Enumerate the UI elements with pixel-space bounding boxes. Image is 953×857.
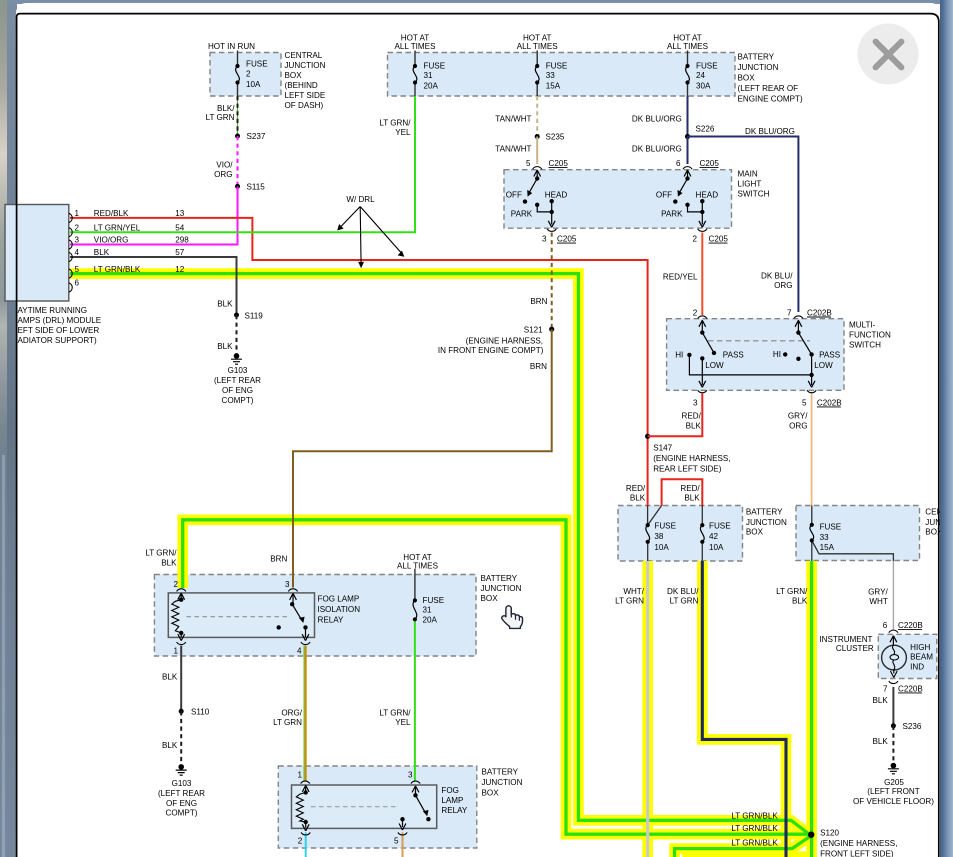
fuse 2 10A xyxy=(235,64,239,85)
label battery junction box (iso) xyxy=(481,574,522,603)
svg-text:LT GRN/BLK: LT GRN/BLK xyxy=(731,838,778,847)
label BLK below S110 xyxy=(162,741,178,750)
svg-text:BATTERY: BATTERY xyxy=(738,53,775,62)
splice S235 xyxy=(535,134,540,139)
connector C202B pin7 arc xyxy=(794,316,803,319)
svg-text:BEAM: BEAM xyxy=(910,653,933,662)
fuse 33 15A (right box) xyxy=(810,523,814,543)
label HOT AT ALL TIMES (fuse24) xyxy=(667,34,709,52)
svg-text:FOG: FOG xyxy=(441,786,459,795)
main light switch section 2 internals xyxy=(673,170,706,227)
svg-text:FUSE: FUSE xyxy=(820,523,842,532)
svg-text:DK BLU/ORG: DK BLU/ORG xyxy=(632,145,682,154)
label fuse2 value xyxy=(246,60,268,90)
svg-text:BOX: BOX xyxy=(746,528,764,537)
svg-text:OF DASH): OF DASH) xyxy=(285,101,324,110)
svg-text:1: 1 xyxy=(297,771,302,780)
wire VIO/ORG solid: S115 to DRL pin3 xyxy=(70,186,238,244)
svg-text:2: 2 xyxy=(75,223,80,232)
label DK BLU/LT GRN xyxy=(667,587,699,606)
isolation relay pin2 arc xyxy=(177,589,186,592)
wire ORG/LT GRN: isolation relay pin4 to fog relay pin1 xyxy=(304,646,306,782)
svg-text:RED/YEL: RED/YEL xyxy=(663,273,698,282)
svg-text:LT GRN/: LT GRN/ xyxy=(379,709,411,718)
battery junction box (fog lamp relay) dashed box xyxy=(278,766,477,848)
svg-text:C205: C205 xyxy=(549,159,569,168)
ground G205 xyxy=(888,763,899,774)
svg-text:LAMP: LAMP xyxy=(441,796,463,805)
svg-text:6: 6 xyxy=(676,159,681,168)
svg-text:ALL TIMES: ALL TIMES xyxy=(517,42,559,51)
svg-text:BLK: BLK xyxy=(162,741,178,750)
svg-text:FUSE: FUSE xyxy=(696,62,718,71)
main light switch section 1 internals xyxy=(523,170,555,227)
svg-text:FUSE: FUSE xyxy=(654,522,676,531)
svg-text:57: 57 xyxy=(175,248,185,257)
mouse cursor (hand pointer) xyxy=(502,606,523,629)
wire CYAN: fog relay pin2 down xyxy=(305,833,307,857)
label VIO/ORG xyxy=(214,161,233,180)
svg-text:WHT: WHT xyxy=(869,597,887,606)
svg-text:LT GRN/: LT GRN/ xyxy=(379,119,411,128)
WHT/LT GRN gray core: fuse38 down xyxy=(646,561,649,857)
svg-text:ORG/: ORG/ xyxy=(281,709,302,718)
svg-text:ORG: ORG xyxy=(774,281,792,290)
label fuse38 value xyxy=(654,522,676,552)
svg-text:LT GRN/: LT GRN/ xyxy=(145,549,177,558)
svg-text:5: 5 xyxy=(802,398,807,407)
svg-text:24: 24 xyxy=(696,71,706,80)
labels LT GRN/BLK x3 at S120 xyxy=(731,812,778,848)
svg-text:ALL TIMES: ALL TIMES xyxy=(397,562,439,571)
label W/ DRL xyxy=(346,195,375,204)
fog relay pin3 arc xyxy=(411,781,420,784)
svg-text:TAN/WHT: TAN/WHT xyxy=(495,115,531,124)
svg-text:FUSE: FUSE xyxy=(424,62,446,71)
svg-text:(LEFT REAR OF: (LEFT REAR OF xyxy=(738,84,799,93)
wire: fuse33top feed stub and in-box leads xyxy=(536,51,538,97)
battery junction box (fuse 38/42) dashed box xyxy=(618,506,743,562)
fuse 31 20A (isolation box) xyxy=(413,598,417,621)
svg-text:BATTERY: BATTERY xyxy=(746,508,783,517)
label BRN upper xyxy=(530,297,547,306)
label battery junction box (38/42) xyxy=(746,508,787,537)
svg-text:BLK: BLK xyxy=(872,696,888,705)
fog relay pin5 arc xyxy=(398,832,407,835)
label RED/BLK below pin3 xyxy=(682,412,702,431)
LT GRN/BLK green core: S120 line3 xyxy=(675,837,810,857)
label BLK above S236 xyxy=(872,696,888,705)
svg-text:33: 33 xyxy=(820,533,830,542)
main light switch dashed box xyxy=(504,170,732,229)
wire VIO/ORG dashed: S237 to S115 xyxy=(237,136,239,186)
svg-text:BLK: BLK xyxy=(217,300,233,309)
splice S119 xyxy=(234,313,239,318)
svg-text:JUNCTION: JUNCTION xyxy=(746,518,787,527)
wire TAN/WHT solid: S235 to C205 pin5 xyxy=(536,137,538,165)
connector C202B pin2 arc (top of multifunction switch) xyxy=(698,316,707,319)
connector C205 pin5 arc (top of main light switch) xyxy=(533,167,542,170)
svg-text:ORG: ORG xyxy=(789,421,807,430)
central junction box (fuse 33) dashed box xyxy=(796,506,920,561)
svg-text:FOG LAMP: FOG LAMP xyxy=(318,595,360,604)
svg-text:ALL TIMES: ALL TIMES xyxy=(395,42,437,51)
label RED/BLK left xyxy=(626,484,646,503)
ground G103 (upper) xyxy=(231,353,242,364)
svg-text:S119: S119 xyxy=(245,312,264,321)
DRL circuit numbers xyxy=(175,209,189,274)
central junction box (behind dash) dashed box xyxy=(210,53,281,97)
svg-text:SWITCH: SWITCH xyxy=(738,190,770,199)
label C205 pin6 xyxy=(676,159,719,168)
svg-text:PASS: PASS xyxy=(723,351,745,360)
fuse 24 30A xyxy=(685,64,689,85)
svg-text:(LEFT REAR: (LEFT REAR xyxy=(214,376,261,385)
svg-text:(LEFT REAR: (LEFT REAR xyxy=(158,789,205,798)
svg-text:LT GRN: LT GRN xyxy=(615,597,644,606)
label fuse42 value xyxy=(709,522,731,552)
label G103 upper xyxy=(214,366,261,405)
svg-text:BLK: BLK xyxy=(872,737,888,746)
svg-text:C205: C205 xyxy=(557,235,577,244)
svg-text:FUNCTION: FUNCTION xyxy=(849,331,891,340)
label DRL module caption xyxy=(18,306,102,345)
svg-text:2: 2 xyxy=(246,70,251,79)
label HOT IN RUN xyxy=(208,42,255,51)
svg-text:CENTRAL: CENTRAL xyxy=(285,51,323,60)
label central junction box right (clipped) xyxy=(925,508,947,537)
wire: fuse2 feed stub and in-box leads xyxy=(237,51,239,97)
highlighted LT GRN/BLK wire: fuse33 down through S120 (yellow band) xyxy=(806,561,817,857)
svg-text:(LEFT FRONT: (LEFT FRONT xyxy=(867,787,920,796)
svg-text:2: 2 xyxy=(693,308,698,317)
svg-text:ENGINE COMPT): ENGINE COMPT) xyxy=(738,95,804,104)
label S235 xyxy=(546,133,565,142)
svg-text:LT GRN: LT GRN xyxy=(206,113,235,122)
label C202B pin2 xyxy=(693,308,698,317)
wire TAN/ORG: fog relay pin5 down xyxy=(402,833,404,857)
svg-text:BOX: BOX xyxy=(285,71,303,80)
wire GRY/ORG: multifunction pin5 down to fuse33 box xyxy=(811,394,813,507)
svg-text:FRONT LEFT SIDE): FRONT LEFT SIDE) xyxy=(820,849,894,857)
svg-text:OFF: OFF xyxy=(506,191,522,200)
label C205 pin5 xyxy=(526,159,568,168)
label C220B pin6 xyxy=(883,621,923,630)
svg-text:20A: 20A xyxy=(423,616,438,625)
fuse 42 10A xyxy=(700,523,704,544)
LT GRN/BLK green core: DRL pin5 to S120 line1 xyxy=(70,274,810,835)
svg-text:OFF: OFF xyxy=(656,191,672,200)
svg-text:JUNCTION: JUNCTION xyxy=(738,63,779,72)
svg-text:SWITCH: SWITCH xyxy=(849,341,881,350)
wire LT GRN/YEL: fuse31 down and left to DRL pin2 xyxy=(70,51,415,233)
svg-text:LIGHT: LIGHT xyxy=(738,180,762,189)
svg-text:HI: HI xyxy=(773,350,781,359)
svg-text:15A: 15A xyxy=(820,543,835,552)
label HOT AT ALL TIMES (fuse33) xyxy=(517,34,559,52)
svg-text:7: 7 xyxy=(883,684,888,693)
fog lamp relay body xyxy=(292,785,437,828)
label LT GRN/BLK (iso pin2) xyxy=(145,549,177,568)
svg-text:S115: S115 xyxy=(247,183,266,192)
label S115 xyxy=(247,183,266,192)
high beam indicator bulb xyxy=(882,636,907,678)
label RED/YEL xyxy=(663,273,698,282)
svg-text:10A: 10A xyxy=(654,543,669,552)
label HOT AT ALL TIMES (iso fuse31) xyxy=(397,553,439,571)
svg-text:1: 1 xyxy=(75,209,80,218)
svg-text:VIO/ORG: VIO/ORG xyxy=(94,236,129,245)
svg-text:ADIATOR SUPPORT): ADIATOR SUPPORT) xyxy=(18,336,97,345)
svg-text:INSTRUMENT: INSTRUMENT xyxy=(819,635,872,644)
svg-text:BLK: BLK xyxy=(792,597,808,606)
splice S115 xyxy=(235,184,240,189)
svg-text:5: 5 xyxy=(394,837,399,846)
svg-text:S121: S121 xyxy=(524,326,543,335)
svg-text:BOX: BOX xyxy=(738,74,756,83)
svg-text:S120: S120 xyxy=(820,828,839,837)
labels main light switch positions section1 xyxy=(506,191,568,219)
svg-text:REAR LEFT SIDE): REAR LEFT SIDE) xyxy=(653,465,722,474)
svg-text:AYTIME RUNNING: AYTIME RUNNING xyxy=(18,306,88,315)
svg-text:BLK/: BLK/ xyxy=(217,104,235,113)
isolation relay pin1 arc xyxy=(177,642,186,645)
label LT GRN/BLK (fuse33) xyxy=(776,587,808,606)
label GRY/WHT xyxy=(868,588,888,607)
svg-text:3: 3 xyxy=(75,236,80,245)
svg-text:RED/: RED/ xyxy=(626,484,646,493)
svg-text:LT GRN/BLK: LT GRN/BLK xyxy=(731,812,778,821)
svg-text:IN FRONT ENGINE COMPT): IN FRONT ENGINE COMPT) xyxy=(438,346,544,355)
svg-text:FUSE: FUSE xyxy=(546,62,568,71)
svg-text:BLK: BLK xyxy=(94,248,110,257)
svg-text:PASS: PASS xyxy=(819,351,841,360)
wire BLK: isolation relay pin1 to S110 xyxy=(180,646,182,712)
fuse 33 15A (top) xyxy=(535,64,539,85)
DRL pin numbers xyxy=(75,209,80,288)
svg-text:C202B: C202B xyxy=(817,398,842,407)
label ORG/LT GRN xyxy=(273,709,303,728)
wire DK BLU/ORG: fuse24 to S226 xyxy=(687,96,689,137)
svg-text:DK BLU/ORG: DK BLU/ORG xyxy=(632,115,682,124)
wire RED/BLK staple: fuse38 terminal jumper to fuse42 terminal xyxy=(662,479,703,506)
svg-text:FUSE: FUSE xyxy=(709,522,731,531)
connector C220B pin6 arc xyxy=(889,630,898,633)
wire: fuse31iso feed stub and in-box lead xyxy=(414,569,416,601)
svg-text:ISOLATION: ISOLATION xyxy=(318,605,361,614)
wire TAN/WHT dashed: fuse33 to S235 xyxy=(536,96,538,137)
svg-text:BRN: BRN xyxy=(270,555,287,564)
svg-text:MAIN: MAIN xyxy=(738,170,758,179)
svg-text:BOX: BOX xyxy=(482,789,500,798)
svg-text:S226: S226 xyxy=(696,125,715,134)
label C220B pin7 xyxy=(883,684,923,693)
svg-text:FUSE: FUSE xyxy=(246,60,268,69)
svg-text:30A: 30A xyxy=(696,82,711,91)
label C205 pin3 xyxy=(542,235,577,244)
label GRY/ORG below pin5 xyxy=(788,412,808,431)
svg-text:HI: HI xyxy=(675,351,683,360)
svg-text:(ENGINE HARNESS,: (ENGINE HARNESS, xyxy=(466,336,543,345)
fog relay coil xyxy=(296,785,309,830)
label S121 xyxy=(524,326,543,335)
label DK BLU/ORG upper xyxy=(632,115,682,124)
fog relay pin numbers xyxy=(297,771,413,846)
svg-text:VIO/: VIO/ xyxy=(216,161,233,170)
svg-text:HOT IN RUN: HOT IN RUN xyxy=(208,42,255,51)
svg-text:BLK: BLK xyxy=(630,494,646,503)
svg-text:LT GRN/YEL: LT GRN/YEL xyxy=(94,223,141,232)
close button xyxy=(858,24,919,85)
label BLK below S119 xyxy=(217,342,233,351)
label C202B pin5 xyxy=(802,398,842,407)
svg-text:RED/BLK: RED/BLK xyxy=(94,209,129,218)
svg-text:2: 2 xyxy=(298,837,303,846)
wire BRN dashed: main light switch pin3 to S121 xyxy=(551,233,553,330)
multi-function switch dashed box xyxy=(667,319,844,391)
battery junction box (fog lamp isolation relay) dashed box xyxy=(154,575,476,657)
multifunction switch section 2 internals xyxy=(783,320,815,387)
label BLK above S119 xyxy=(217,300,233,309)
connector C220B pin7 arc xyxy=(889,681,898,684)
svg-text:PARK: PARK xyxy=(661,210,683,219)
svg-text:JUNCTION: JUNCTION xyxy=(285,61,326,70)
label TAN/WHT upper xyxy=(495,115,531,124)
svg-text:DK BLU/ORG: DK BLU/ORG xyxy=(745,127,795,136)
label WHT/LT GRN xyxy=(615,587,645,606)
wire BLK: instrument cluster pin7 to S236 xyxy=(892,687,894,726)
daytime running lamps (DRL) module box xyxy=(5,205,69,302)
svg-text:LT GRN: LT GRN xyxy=(670,597,699,606)
label fuse33 right value xyxy=(820,523,842,553)
isolation relay switch xyxy=(187,593,309,640)
svg-text:33: 33 xyxy=(546,71,556,80)
splice S110 xyxy=(179,709,184,714)
svg-text:RELAY: RELAY xyxy=(441,806,468,815)
label G103 lower xyxy=(158,779,205,818)
svg-text:6: 6 xyxy=(883,621,888,630)
svg-text:GRY/: GRY/ xyxy=(868,588,888,597)
svg-text:42: 42 xyxy=(709,532,719,541)
fog relay pin2 arc xyxy=(301,832,310,835)
label battery junction box (fog) xyxy=(482,768,523,798)
label S119 xyxy=(245,312,264,321)
connector C205 pin3 arc (bottom) xyxy=(547,229,556,232)
battery junction box (left rear engine compt) dashed box xyxy=(388,53,736,97)
highlighted WHT/LT GRN wire: fuse38 down to bottom (yellow band) xyxy=(642,561,653,857)
svg-text:JUNCTION: JUNCTION xyxy=(482,778,523,787)
svg-text:13: 13 xyxy=(175,209,185,218)
highlighted LT GRN/BLK wire: S120 line2 to coil feed to isolation relay pin2 (yellow band) xyxy=(183,520,810,834)
svg-text:LT GRN/BLK: LT GRN/BLK xyxy=(731,824,778,833)
svg-text:BATTERY: BATTERY xyxy=(481,574,518,583)
label RED/BLK right xyxy=(680,484,700,503)
label LT GRN/YEL lower xyxy=(379,709,411,728)
svg-text:BLK: BLK xyxy=(162,672,178,681)
svg-text:S236: S236 xyxy=(903,722,922,731)
svg-text:IND: IND xyxy=(910,663,924,672)
label BLK below S236 xyxy=(872,737,888,746)
label DK BLU/ORG at pin7 xyxy=(761,271,793,290)
svg-text:DK BLU/: DK BLU/ xyxy=(761,271,793,280)
wire DK BLU/ORG branch: S226 right and down to multifunction pin7 xyxy=(688,137,799,313)
svg-text:3: 3 xyxy=(542,235,547,244)
svg-text:3: 3 xyxy=(408,771,413,780)
in-box leads to fuse38/fuse42 xyxy=(648,506,703,562)
svg-text:3: 3 xyxy=(285,580,290,589)
svg-text:CLUSTER: CLUSTER xyxy=(836,644,874,653)
svg-text:(ENGINE HARNESS,: (ENGINE HARNESS, xyxy=(820,839,897,848)
svg-text:BLK: BLK xyxy=(161,559,177,568)
splice S236 xyxy=(891,723,896,728)
label BLK/LT GRN xyxy=(206,104,236,122)
multifunction switch section 1 internals xyxy=(687,320,811,387)
svg-text:31: 31 xyxy=(424,71,434,80)
label DK BLU/ORG lower xyxy=(632,145,682,154)
label DK BLU/ORG branch xyxy=(745,127,795,136)
connector C202B pin3 arc (bottom) xyxy=(698,390,707,393)
label HOT AT ALL TIMES (fuse31) xyxy=(395,34,437,52)
svg-text:38: 38 xyxy=(654,532,664,541)
label BRN lower xyxy=(530,362,547,371)
svg-text:BLK: BLK xyxy=(684,494,700,503)
connector C205 pin6 arc xyxy=(683,167,692,170)
svg-text:RED/: RED/ xyxy=(682,412,702,421)
svg-text:C220B: C220B xyxy=(898,684,923,693)
svg-text:PARK: PARK xyxy=(511,210,533,219)
splice S121 xyxy=(549,327,554,332)
fog relay switch xyxy=(311,786,431,830)
svg-text:ALL TIMES: ALL TIMES xyxy=(667,42,709,51)
svg-text:G103: G103 xyxy=(172,779,192,788)
LT GRN/BLK green core: S120 line2 to isolation relay pin2 xyxy=(183,520,810,834)
svg-text:LT GRN/BLK: LT GRN/BLK xyxy=(94,265,141,274)
highlighted wire: partial line4 at bottom edge (yellow band) xyxy=(688,853,807,857)
labels multifunction positions section1 xyxy=(675,351,744,371)
svg-text:54: 54 xyxy=(175,223,185,232)
svg-text:OF VEHICLE FLOOR): OF VEHICLE FLOOR) xyxy=(853,797,934,806)
connector C205 pin2 arc (bottom) xyxy=(698,229,707,232)
svg-text:YEL: YEL xyxy=(395,128,411,137)
svg-text:OF ENG: OF ENG xyxy=(222,386,253,395)
label high beam ind xyxy=(910,643,933,672)
svg-text:(BEHIND: (BEHIND xyxy=(285,81,318,90)
svg-text:7: 7 xyxy=(787,308,792,317)
label central junction box xyxy=(285,51,326,110)
label fog lamp isolation relay xyxy=(318,595,361,625)
label S147 caption xyxy=(653,444,730,474)
label S110 xyxy=(191,708,210,717)
highlighted LT GRN/BLK wire: DRL pin5 to vertical A to S120 line1 (yellow band) xyxy=(70,274,809,835)
fog lamp isolation relay body xyxy=(168,593,314,638)
isolation relay pin4 arc xyxy=(301,642,310,645)
svg-text:BRN: BRN xyxy=(530,297,547,306)
svg-text:YEL: YEL xyxy=(395,718,411,727)
svg-text:5: 5 xyxy=(526,159,531,168)
svg-text:HEAD: HEAD xyxy=(545,191,568,200)
svg-text:5: 5 xyxy=(75,265,80,274)
label BLK above S110 xyxy=(162,672,178,681)
svg-text:G103: G103 xyxy=(228,366,248,375)
svg-text:298: 298 xyxy=(175,236,189,245)
wire BLK: DRL pin4 right and down to S119 xyxy=(70,257,237,315)
label S236 xyxy=(903,722,922,731)
svg-text:C202B: C202B xyxy=(807,308,832,317)
DRL module pin arcs xyxy=(69,213,72,292)
svg-text:BLK: BLK xyxy=(217,342,233,351)
svg-text:2: 2 xyxy=(692,235,697,244)
label S121 caption xyxy=(438,336,544,355)
